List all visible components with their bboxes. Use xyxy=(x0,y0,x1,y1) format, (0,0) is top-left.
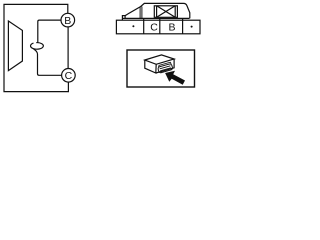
terminal row divider 1 xyxy=(143,18,145,33)
housing raised-section left edges xyxy=(139,7,141,19)
connector housing profile (top-right) xyxy=(122,3,189,20)
connector housing bottom edge xyxy=(122,17,189,19)
wire terminal B to terminal C xyxy=(67,27,69,69)
terminal row divider 3 xyxy=(182,18,184,33)
module connector socket xyxy=(157,62,173,73)
terminal B xyxy=(61,13,75,27)
case outline (left diagram enclosure) xyxy=(4,4,68,91)
terminal row divider 2 xyxy=(159,18,161,33)
index dot left cell xyxy=(132,25,134,27)
svg-text:B: B xyxy=(64,15,71,27)
crossed vent box xyxy=(154,6,177,17)
index dot right cell xyxy=(191,26,193,28)
module 3D box right face xyxy=(156,59,174,73)
terminal C xyxy=(62,69,76,83)
coil loop xyxy=(31,43,44,50)
module 3D box left face xyxy=(145,60,156,73)
svg-text:C: C xyxy=(65,70,73,82)
pointer arrow xyxy=(165,71,185,85)
svg-text:B: B xyxy=(168,21,175,33)
capacitor element (trapezoid plate) xyxy=(8,21,22,71)
module 3D box top face xyxy=(145,55,174,64)
terminal row outer rectangle xyxy=(116,20,200,34)
wire from coil loop to terminal C xyxy=(34,49,62,75)
svg-text:C: C xyxy=(150,21,158,33)
housing left foot edge xyxy=(124,16,126,19)
wire from terminal B to coil loop xyxy=(38,20,61,42)
component photo frame (bottom-right) xyxy=(127,50,195,87)
